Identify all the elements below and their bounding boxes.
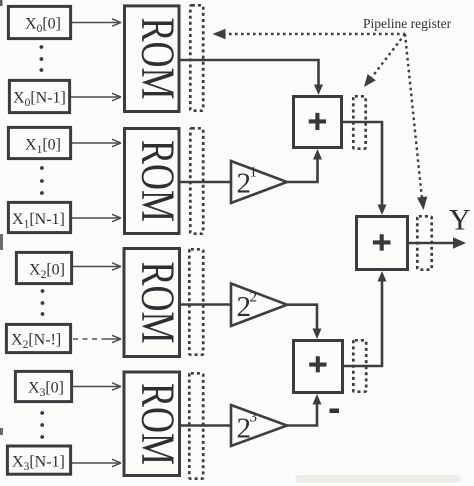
wire arrow X1[N-1] to ROM2 (72, 214, 121, 221)
input box X2[N-1] (6, 324, 70, 352)
input box X2[0] (16, 252, 71, 283)
svg-text:ROM: ROM (131, 261, 184, 343)
svg-text:2: 2 (250, 290, 258, 306)
label Y (449, 204, 471, 237)
wire arrow X3[N-1] to ROM4 (72, 459, 121, 466)
input box X3[N-1] (7, 446, 70, 474)
ROM 3 (124, 249, 184, 357)
wire arrow X1[0] to ROM2 (72, 139, 121, 146)
ellipsis dots group 3 (41, 289, 45, 316)
wire ROM2 to shifter 2^1 (180, 181, 231, 184)
adder A2 (294, 341, 343, 393)
shifter 2^1 (triangle) (231, 161, 287, 203)
svg-text:X0[0]: X0[0] (25, 16, 61, 36)
input box X3[0] (15, 371, 71, 401)
svg-text:Y: Y (449, 204, 471, 237)
wire ROM3 to shifter 2^2 (180, 303, 231, 306)
pipeline register REG6 (dashed) (353, 340, 366, 391)
shifter 2^3 (triangle) (231, 405, 287, 446)
svg-text:X2[N-!]: X2[N-!] (11, 332, 61, 352)
input box X0[N-1] (9, 80, 69, 112)
svg-text:ROM: ROM (131, 140, 184, 222)
shifter 2^2 (triangle) (231, 284, 287, 327)
wire ROM4 to shifter 2^3 (180, 424, 231, 427)
dotted pointer line to REG5 (360, 34, 405, 90)
scan artifact marks (0, 0, 3, 435)
dotted pointer line to REG1 (213, 29, 406, 39)
ROM 1 (125, 6, 184, 112)
ellipsis dots group 2 (40, 166, 44, 195)
pipeline register REG4 (dashed) (189, 373, 203, 478)
svg-text:3: 3 (250, 410, 258, 426)
wire shifter 2^3 to adder A2 (287, 394, 322, 426)
svg-text:X3[0]: X3[0] (28, 380, 64, 400)
pipeline register REG2 (dashed) (190, 128, 203, 233)
svg-text:X1[0]: X1[0] (25, 137, 61, 157)
wire adder A2 to adder A3 (344, 271, 387, 366)
pipeline register REG5 (dashed) (353, 96, 365, 148)
wire arrow X2[0] to ROM3 (73, 263, 121, 270)
adder A1 (294, 97, 342, 148)
svg-text:X0[N-1]: X0[N-1] (13, 90, 66, 110)
output arrow Y (409, 237, 466, 249)
minus sign at adder A2 lower input (330, 409, 340, 414)
svg-text:ROM: ROM (131, 17, 184, 99)
wire shifter 2^1 to adder A1 (287, 149, 322, 182)
svg-text:ROM: ROM (131, 383, 184, 465)
svg-text:Pipeline register: Pipeline register (363, 16, 452, 31)
label Pipeline register (363, 16, 452, 31)
svg-text:1: 1 (250, 165, 258, 181)
input box X1[0] (8, 127, 70, 158)
svg-text:X2[0]: X2[0] (29, 262, 65, 282)
pipeline register REG7 (dashed) (417, 216, 431, 269)
svg-text:X3[N-1]: X3[N-1] (12, 454, 65, 474)
ROM 4 (124, 372, 184, 476)
wire adder A1 to adder A3 (343, 122, 387, 215)
wire ROM1 to adder A1 (180, 60, 323, 95)
ROM 2 (125, 129, 184, 234)
wire arrow X3[0] to ROM4 (72, 383, 121, 390)
wire shifter 2^2 to adder A2 (287, 305, 322, 339)
ellipsis dots group 1 (40, 45, 44, 72)
pipeline register REG3 (dashed) (189, 249, 203, 354)
input box X0[0] (8, 6, 70, 38)
wire arrow X0[0] to ROM1 (72, 19, 121, 26)
dotted pointer line to REG7 (405, 34, 429, 211)
svg-text:X1[N-1]: X1[N-1] (12, 211, 65, 231)
faint scan smudge bottom right (295, 475, 460, 483)
ellipsis dots group 4 (40, 411, 44, 439)
adder A3 (final) (357, 217, 408, 270)
wire arrow X0[N-1] to ROM1 (71, 93, 121, 100)
pipeline register REG1 (dashed) (190, 5, 203, 110)
input box X1[N-1] (8, 202, 70, 232)
wire arrow X2[N-1] to ROM3 (73, 335, 121, 342)
